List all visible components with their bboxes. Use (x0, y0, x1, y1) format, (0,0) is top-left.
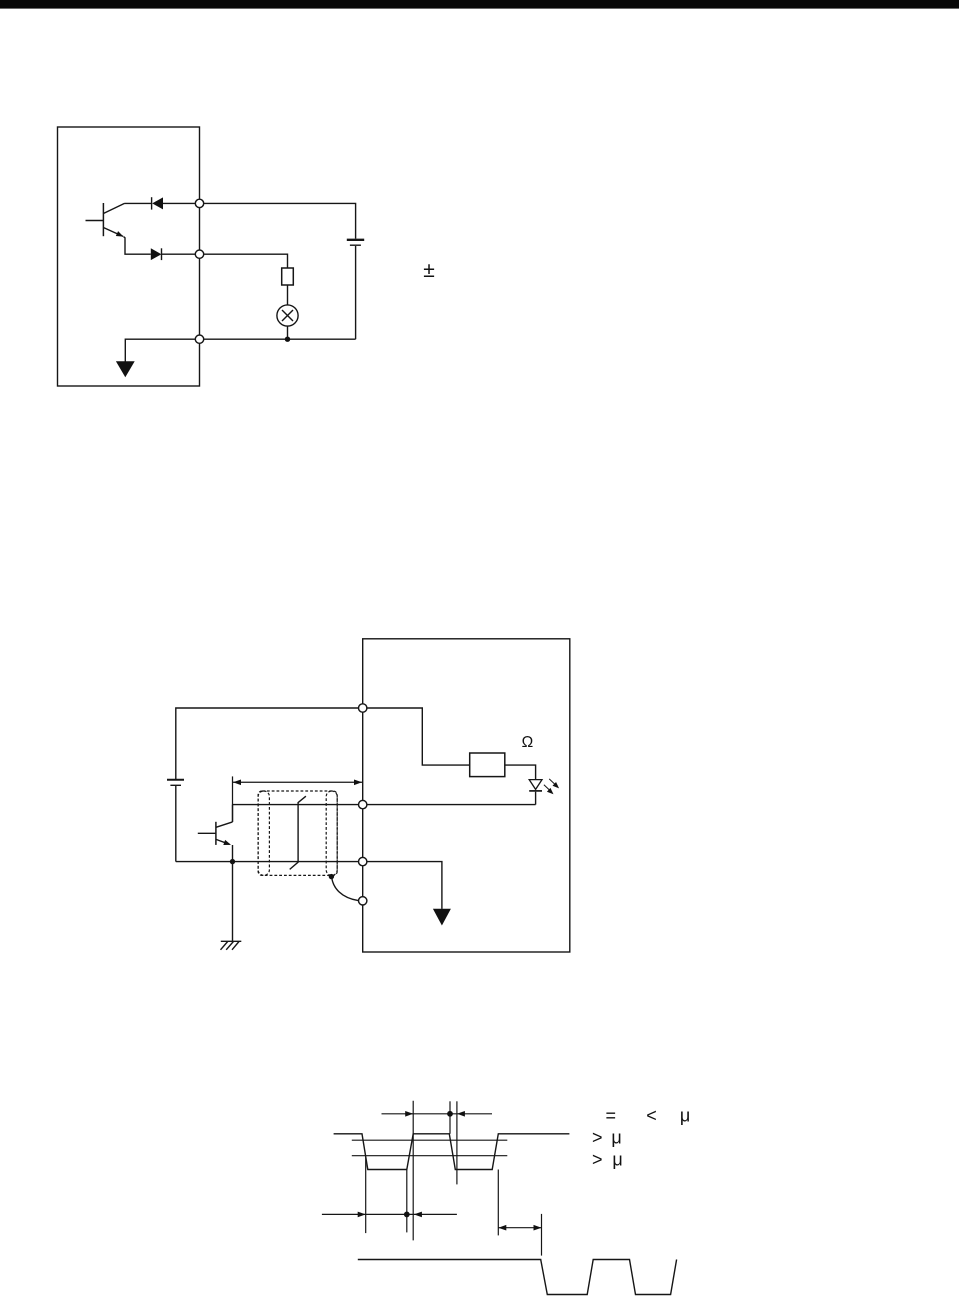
wire Q1 collector to diode D1 (125, 202, 152, 204)
wire lamp to bottom rail (287, 326, 289, 339)
dimension arrows top (382, 1111, 493, 1117)
battery BT2 (167, 780, 184, 786)
svg-text:=: = (605, 1106, 616, 1126)
threshold line lower (352, 1155, 508, 1157)
wire battery to bottom rail (355, 246, 357, 339)
svg-text:μ: μ (680, 1106, 690, 1126)
svg-text:±: ± (423, 259, 435, 282)
wire terminal 3 into box (125, 339, 195, 361)
earth ground (221, 941, 242, 950)
resistor R1 (282, 268, 294, 285)
dimension extension line (232, 776, 234, 822)
diode D1 (152, 197, 196, 209)
transistor Q2 (198, 805, 233, 862)
terminal B (359, 800, 367, 808)
shield drain curve to terminal D (332, 878, 359, 900)
terminal A (359, 704, 367, 712)
svg-text:>: > (592, 1128, 603, 1148)
crossover line inside cable (290, 796, 306, 869)
wire B inside box (367, 804, 536, 806)
diode D2 (151, 248, 196, 260)
resistor R2 (470, 753, 505, 777)
timing note line 1 (605, 1106, 690, 1126)
wire resistor to lamp (287, 285, 289, 305)
lamp PL1 (277, 305, 298, 326)
threshold line upper (352, 1139, 508, 1141)
wire C inside box (367, 862, 442, 909)
wire B (twisted pair upper) (233, 804, 359, 806)
svg-text:<: < (646, 1106, 657, 1126)
shielded cable (dashed) (258, 791, 337, 875)
transistor Q1 (86, 203, 125, 239)
wire resistor to LED (505, 765, 536, 779)
LED light arrow 2 (544, 785, 555, 796)
svg-text:μ: μ (612, 1150, 622, 1170)
timing note line 2 (592, 1128, 622, 1148)
wire emitter to earth ground (232, 862, 234, 942)
timing note line 3 (592, 1150, 623, 1170)
LED light arrow 1 (549, 779, 561, 790)
LED D3 (529, 780, 542, 805)
wire terminal 2 to resistor (204, 254, 288, 268)
waveform 1 (334, 1134, 570, 1170)
cable length dimension arrow (233, 780, 362, 786)
svg-text:>: > (592, 1150, 603, 1170)
wire Q1 emitter elbow to diode D2 (124, 237, 151, 255)
wire common rail to terminal C (176, 861, 359, 863)
wire battery down to common rail (175, 786, 177, 862)
waveform 2 (358, 1260, 677, 1295)
ground arrow (circuit 1 common) (116, 361, 135, 377)
wire A inside box to resistor (367, 708, 470, 765)
controller box (circuit 1 enclosure) (58, 127, 200, 386)
terminal T3 (195, 335, 203, 343)
ground arrow (circuit 2 common) (433, 909, 451, 926)
svg-text:Ω: Ω (522, 734, 534, 751)
terminal C (359, 857, 367, 865)
junction dot node2 (230, 859, 235, 864)
shield junction dot (329, 874, 334, 879)
dimension arrow right (498, 1225, 541, 1231)
terminal T2 (195, 250, 203, 258)
wire bottom rail (terminal 3) (204, 338, 356, 340)
terminal T1 (195, 199, 203, 207)
wire top (battery to terminal A) (176, 708, 359, 779)
dimension arrows lower (322, 1212, 457, 1218)
svg-text:μ: μ (611, 1128, 621, 1148)
header bar (0, 0, 959, 9)
dimension verticals (366, 1101, 542, 1256)
battery BT1 (347, 240, 364, 245)
junction dot node1 (285, 337, 290, 342)
terminal D (359, 897, 367, 905)
wire top (terminal 1 to battery) (204, 203, 356, 238)
controller box (circuit 2 enclosure) (363, 639, 570, 952)
